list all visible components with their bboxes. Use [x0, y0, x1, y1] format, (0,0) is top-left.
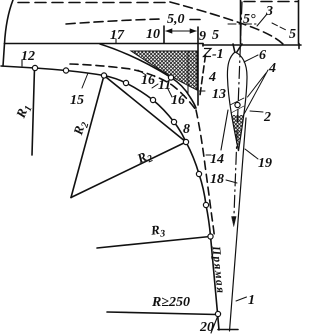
- svg-text:R1: R1: [12, 102, 34, 122]
- svg-text:5: 5: [212, 28, 219, 43]
- svg-text:10: 10: [146, 27, 160, 42]
- svg-text:20: 20: [199, 320, 214, 334]
- svg-text:Прямая: Прямая: [209, 245, 226, 294]
- svg-text:17: 17: [110, 28, 125, 43]
- svg-text:5: 5: [289, 27, 296, 42]
- svg-text:R3: R3: [149, 221, 165, 240]
- svg-text:5,0: 5,0: [167, 12, 185, 27]
- svg-text:4: 4: [268, 61, 276, 76]
- svg-text:18: 18: [210, 172, 224, 187]
- svg-text:-1: -1: [212, 47, 224, 62]
- svg-text:16: 16: [141, 73, 155, 88]
- svg-text:9: 9: [199, 29, 206, 44]
- svg-text:12: 12: [21, 49, 35, 64]
- svg-text:14: 14: [210, 152, 224, 167]
- svg-text:8: 8: [183, 122, 190, 137]
- svg-text:19: 19: [258, 156, 272, 171]
- svg-text:5°: 5°: [243, 12, 256, 27]
- svg-text:R≥250: R≥250: [151, 295, 190, 310]
- svg-text:15: 15: [70, 93, 84, 108]
- svg-text:6: 6: [259, 48, 266, 63]
- svg-text:3: 3: [265, 4, 273, 19]
- svg-text:1: 1: [248, 293, 255, 308]
- svg-text:11: 11: [158, 78, 171, 93]
- svg-text:2: 2: [263, 110, 271, 125]
- svg-text:13: 13: [212, 87, 226, 102]
- svg-text:16: 16: [171, 93, 185, 108]
- svg-text:4: 4: [208, 70, 216, 85]
